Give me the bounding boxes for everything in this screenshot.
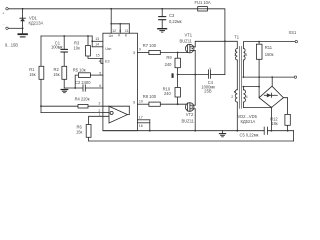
wire R11 column bottom <box>258 59 260 97</box>
wire winding1 top <box>225 41 237 48</box>
winding 4 <box>243 90 245 102</box>
junction (259.1,77.1) <box>258 76 260 78</box>
terminal minus <box>6 27 8 29</box>
wire winding4 bottom to bridge bottom <box>243 107 271 109</box>
svg-text:Э: Э <box>133 101 136 105</box>
junction (177.6,74.5) <box>177 74 179 76</box>
svg-text:1: 1 <box>234 53 236 57</box>
wire winding3 top to XS1 <box>243 42 294 49</box>
wire winding1 to winding2 <box>236 60 238 90</box>
junction (88,36) <box>87 35 89 37</box>
svg-text:1: 1 <box>99 113 101 117</box>
wire VT1 drain <box>195 41 225 47</box>
wire VD1 column <box>22 9 24 34</box>
wire winding3 bottom to output line <box>242 60 244 77</box>
svg-text:К: К <box>118 34 121 38</box>
svg-text:+: + <box>2 11 4 15</box>
resistor R12 <box>270 114 290 125</box>
terminal plus <box>6 8 8 10</box>
svg-text:Т1: Т1 <box>234 35 240 40</box>
svg-text:100мк: 100мк <box>51 44 63 49</box>
resistor R5 <box>73 68 91 78</box>
svg-text:14: 14 <box>95 43 99 47</box>
wire step to pin13 <box>91 36 93 47</box>
wire pin4 <box>101 58 103 63</box>
svg-text:VT1: VT1 <box>185 32 193 37</box>
junction (22.6,8.8) <box>22 8 24 10</box>
svg-text:R4 220к: R4 220к <box>75 97 90 102</box>
svg-text:С5 0,22мк: С5 0,22мк <box>240 132 259 137</box>
svg-text:С2 2400: С2 2400 <box>75 80 91 85</box>
svg-text:17: 17 <box>139 116 143 120</box>
junction (177.6,52.5) <box>177 52 179 54</box>
wire bottom rail B1 with IC bottom <box>103 130 264 132</box>
wire winding4 top link <box>242 87 244 90</box>
capacitor C3 <box>159 13 182 24</box>
wire midline left <box>178 74 209 76</box>
svg-text:R5 10к: R5 10к <box>73 68 86 73</box>
resistor R2 <box>53 66 67 79</box>
fuse FU1 <box>195 0 211 11</box>
svg-text:0,22мк: 0,22мк <box>169 19 182 24</box>
wire minus input <box>9 27 23 29</box>
wire C1 to R2 <box>63 52 65 66</box>
junction (237.3,130.7) <box>236 130 238 132</box>
IC DA1 box <box>103 33 137 131</box>
diode bridge VD2-VD5 <box>238 86 284 124</box>
junction (162.2,8.8) <box>161 8 163 10</box>
wire R1 column lower <box>40 79 42 112</box>
junction (287.6,130.7) <box>287 130 289 132</box>
svg-text:-: - <box>3 22 5 26</box>
svg-text:3: 3 <box>245 53 247 57</box>
wire pin14 <box>92 46 103 48</box>
svg-text:Э: Э <box>133 51 136 55</box>
svg-text:ЕЗ: ЕЗ <box>105 60 110 64</box>
wire pin5 from R5 <box>90 74 103 76</box>
core lines <box>239 46 241 108</box>
pin labels top <box>112 29 129 33</box>
junction (22.6,28.3) <box>22 27 24 29</box>
wire R5 left leg <box>75 75 78 88</box>
wire C3 column top <box>161 9 163 17</box>
wire pin8 stub <box>119 24 121 33</box>
pin labels right <box>139 48 143 129</box>
svg-text:Uп: Uп <box>109 34 114 38</box>
wire R3 to pin15 <box>88 56 103 58</box>
svg-text:R11: R11 <box>265 45 273 50</box>
wire R11 column top <box>258 42 260 45</box>
resistor R4 <box>75 97 90 108</box>
wire R4 line pin3 <box>41 105 78 107</box>
svg-text:15к: 15к <box>53 72 60 77</box>
svg-text:+: + <box>209 66 211 70</box>
junction (111.2,8.8) <box>110 8 112 10</box>
winding 3 <box>243 48 245 60</box>
junction (75.2,88) <box>74 87 76 89</box>
svg-text:VT2: VT2 <box>186 112 194 117</box>
capacitor C2 <box>75 80 91 91</box>
junction (195.2,130.7) <box>194 130 196 132</box>
svg-text:240: 240 <box>165 62 173 67</box>
wire pin16 <box>137 122 149 124</box>
ground under C3 <box>158 29 167 32</box>
svg-text:С3: С3 <box>169 13 175 18</box>
junction (243.4,77.1) <box>243 76 245 78</box>
svg-text:5: 5 <box>99 71 101 75</box>
svg-text:240: 240 <box>164 91 172 96</box>
junction (64.2,36) <box>63 35 65 37</box>
wire pin17 <box>137 119 149 121</box>
wire pin10 to R8 <box>137 103 149 105</box>
wire R3 column <box>87 36 89 46</box>
resistor R9 <box>165 55 181 68</box>
svg-text:КД213А: КД213А <box>29 21 44 26</box>
junction (271.4,130.7) <box>271 130 273 132</box>
ground under R2 <box>61 90 68 93</box>
svg-text:15: 15 <box>96 54 100 58</box>
diode VD1 <box>20 16 44 26</box>
wire R12 bottom <box>287 125 289 130</box>
junction (272.2,77.1) <box>271 76 273 78</box>
junction (243.4,86.6) <box>243 86 245 88</box>
chassis ground under VD1 <box>18 34 27 37</box>
svg-text:25В: 25В <box>204 89 212 94</box>
svg-text:16: 16 <box>139 124 143 128</box>
svg-text:КД521А: КД521А <box>241 119 256 124</box>
svg-text:13: 13 <box>95 37 99 41</box>
svg-text:R7 100: R7 100 <box>143 43 157 48</box>
svg-text:8: 8 <box>119 29 121 33</box>
junction (195.2,74.5) <box>194 74 196 76</box>
svg-text:3: 3 <box>98 101 100 105</box>
svg-text:2: 2 <box>231 95 233 99</box>
wire rail36 left section <box>41 35 92 37</box>
svg-text:12: 12 <box>112 29 116 33</box>
capacitor C5 <box>240 127 268 137</box>
wire bridge right elbow <box>283 98 287 115</box>
junction (224.9,41.3) <box>224 40 226 42</box>
svg-text:BUZ11: BUZ11 <box>182 119 195 124</box>
svg-text:R9: R9 <box>166 55 172 60</box>
phase dots <box>235 50 237 52</box>
wire top rail <box>9 8 198 10</box>
wire opamp feedback column <box>127 106 129 114</box>
wire pin6 line right <box>85 87 103 89</box>
wire pin6 line left <box>64 87 83 89</box>
wire R1 column <box>40 36 42 66</box>
wire pin1 from R6 <box>89 116 111 124</box>
resistor R11 <box>256 44 273 59</box>
svg-text:15к: 15к <box>29 72 36 77</box>
junction (259.1,41.6) <box>258 41 260 43</box>
wire winding4 bottom <box>242 102 244 107</box>
wire pin12 column <box>110 9 112 33</box>
wire winding4 top to bridge left riser <box>243 86 259 88</box>
junction (271.4,107.5) <box>271 107 273 109</box>
svg-text:6: 6 <box>99 84 101 88</box>
wire midline right of C4 <box>210 74 225 76</box>
junction (177.6,104.2) <box>177 103 179 105</box>
wire C1 R2 column <box>63 36 65 49</box>
resistor R1 <box>29 66 44 79</box>
wire VT2 source to rail <box>194 109 196 131</box>
resistor R7 <box>143 43 160 55</box>
transistor VT2 <box>182 103 196 124</box>
svg-text:4: 4 <box>99 60 101 64</box>
svg-text:10: 10 <box>139 100 143 104</box>
wire pin2 stub inside <box>103 112 110 114</box>
resistor R8 <box>143 94 160 106</box>
junction (120.2,23.8) <box>119 23 121 25</box>
resistor R6 <box>76 125 91 138</box>
op-amp comparator <box>109 106 128 123</box>
junction (259.1,86.6) <box>258 86 260 88</box>
wire R9 bottom leg <box>177 68 179 88</box>
svg-text:Uзн: Uзн <box>105 47 111 51</box>
junction (111.2,23.8) <box>110 23 112 25</box>
winding 2 <box>235 90 237 102</box>
resistor R3 <box>74 41 91 57</box>
wire pins tie top <box>111 23 129 25</box>
svg-text:R8 100: R8 100 <box>143 94 157 99</box>
wire bridge bottom to rail <box>270 108 272 131</box>
capacitor C1 <box>51 40 67 52</box>
svg-text:К: К <box>125 34 128 38</box>
wire R10 bottom leg <box>177 97 179 104</box>
IC internal labels <box>105 34 136 105</box>
wire pin9 to R7 <box>137 52 149 54</box>
pin labels left <box>95 37 101 116</box>
wire rail fuse to corner column <box>207 9 225 75</box>
wire winding2 bottom to rail <box>236 102 238 131</box>
wire R7 to VT1 gate <box>160 52 187 54</box>
svg-text:15к: 15к <box>76 129 83 134</box>
winding 1 <box>236 48 238 60</box>
wire bridge top riser <box>271 77 273 86</box>
connector XS1 <box>289 30 298 78</box>
wire VT1 source to VT2 drain <box>194 50 196 105</box>
svg-text:150к: 150к <box>265 52 274 57</box>
transistor VT1 <box>180 32 196 53</box>
resistor R10 <box>163 86 181 97</box>
wire pin11 stub <box>128 24 130 33</box>
svg-text:FU1 10А: FU1 10А <box>195 0 211 5</box>
wire pin13 <box>92 40 103 42</box>
wire C3 column bottom <box>161 20 163 29</box>
wire pin2 line <box>41 112 103 114</box>
wire R6 bottom <box>88 137 90 141</box>
wire R4 to pin3 <box>88 105 129 107</box>
svg-text:10к: 10к <box>74 46 81 51</box>
junction (92.3,41.3) <box>91 40 93 42</box>
junction (41,106.2) <box>40 105 42 107</box>
svg-text:4: 4 <box>246 95 248 99</box>
svg-text:9...15В: 9...15В <box>5 42 18 47</box>
svg-text:ХS1: ХS1 <box>289 30 297 35</box>
transformer T1 <box>231 35 247 109</box>
svg-text:11: 11 <box>125 29 129 33</box>
wire output minus line <box>243 76 293 78</box>
svg-text:9: 9 <box>139 48 141 52</box>
svg-text:BUZ11: BUZ11 <box>180 39 193 44</box>
wire B1 to B2 drop <box>293 131 295 141</box>
wire R2 bottom <box>63 79 65 88</box>
junction (149.8,130.7) <box>149 130 151 132</box>
wire pin16 riser to rail <box>149 120 151 131</box>
wire R9 top leg <box>177 53 179 59</box>
wire R8 to VT2 gate <box>160 103 187 105</box>
blob mark on midline <box>172 73 174 78</box>
svg-text:18к: 18к <box>271 121 278 126</box>
wire bottom rail B2 <box>89 140 294 142</box>
capacitor C4 <box>201 66 215 93</box>
ground on bottom rail <box>219 131 225 137</box>
wire bottom rail B1 right part <box>267 130 293 132</box>
